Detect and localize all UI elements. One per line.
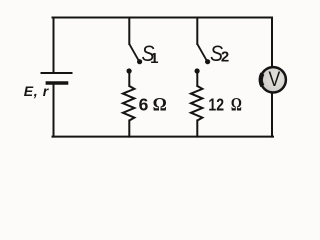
wire bottom bus	[53, 136, 274, 138]
wire R2 bottom lead	[196, 121, 198, 137]
svg-text:E, r: E, r	[24, 83, 50, 99]
wire S2 lower terminal to resistor R2	[196, 71, 198, 86]
wire right lower (voltmeter bottom lead)	[271, 94, 273, 137]
svg-text:12: 12	[208, 95, 224, 115]
battery E,r	[41, 73, 73, 83]
switch S2	[195, 44, 211, 74]
label S1	[142, 41, 159, 67]
svg-text:Ω: Ω	[231, 95, 242, 116]
svg-text:1: 1	[150, 50, 158, 67]
wire S2 branch from top bus	[196, 18, 198, 45]
label 12 ohm	[208, 95, 242, 116]
wire S1 branch from top bus	[128, 18, 130, 45]
svg-text:6: 6	[139, 95, 149, 115]
svg-text:V: V	[269, 68, 281, 91]
wire left lower (battery bottom lead)	[53, 85, 55, 137]
svg-text:2: 2	[221, 49, 229, 66]
svg-text:Ω: Ω	[153, 95, 167, 116]
label 6 ohm	[139, 95, 167, 116]
wire S1 lower terminal to resistor R1	[128, 71, 130, 86]
resistor R2 (12 ohm)	[191, 86, 203, 121]
resistor R1 (6 ohm)	[123, 86, 134, 121]
voltmeter V	[261, 67, 286, 92]
wire right upper (voltmeter top lead)	[271, 18, 273, 67]
wire left upper (battery top lead)	[53, 18, 55, 73]
wire top bus	[53, 17, 273, 19]
switch S1	[127, 44, 143, 74]
label S2	[210, 41, 229, 66]
wire R1 bottom lead	[128, 121, 130, 137]
